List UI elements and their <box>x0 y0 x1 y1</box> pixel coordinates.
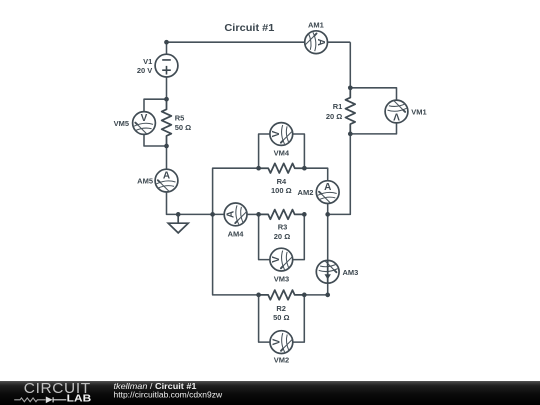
wire AM3 bottom lead to R2 row <box>327 283 329 295</box>
svg-text:LAB: LAB <box>67 392 92 404</box>
footer bar <box>0 381 540 405</box>
wire AM5 bottom down and right to AM4 <box>167 192 225 215</box>
svg-text:A: A <box>226 211 237 218</box>
wire VM3 parallel loop <box>259 214 305 259</box>
svg-text:AM2: AM2 <box>298 188 314 197</box>
svg-text:V: V <box>271 338 282 345</box>
wire top rail left of AM1 <box>167 41 305 43</box>
wire R5 bottom to AM5 top <box>166 146 168 169</box>
voltage source V1 <box>155 54 178 77</box>
junction node R1 top <box>348 85 353 90</box>
wire VM1 parallel loop <box>350 88 396 134</box>
junction node AM3 bottom <box>325 293 330 298</box>
wire AM4 right to R3 left node <box>247 213 259 215</box>
voltmeter VM4 <box>270 123 293 146</box>
svg-text:VM5: VM5 <box>114 119 129 128</box>
ammeter AM3 <box>316 260 339 283</box>
wire VM4 parallel loop <box>259 134 305 168</box>
svg-text:20 Ω: 20 Ω <box>326 112 342 121</box>
svg-text:R2: R2 <box>276 304 286 313</box>
wire VM5 parallel loop <box>144 99 167 146</box>
wire right rail R1 bottom down to AM2 bottom row <box>328 134 351 215</box>
svg-text:V: V <box>141 113 148 124</box>
ammeter AM5 <box>155 169 178 192</box>
voltmeter VM1 <box>385 100 408 123</box>
svg-text:AM4: AM4 <box>228 229 245 238</box>
svg-text:VM4: VM4 <box>274 148 290 157</box>
wire top rail right of AM1 <box>328 41 351 43</box>
junction node ground <box>176 212 181 217</box>
svg-text:A: A <box>315 39 326 46</box>
voltmeter VM5 <box>133 112 156 135</box>
svg-text:VM2: VM2 <box>274 355 289 364</box>
svg-text:A: A <box>324 182 331 193</box>
ground <box>168 214 188 233</box>
svg-text:50 Ω: 50 Ω <box>273 313 289 322</box>
junction node R2 right <box>302 293 307 298</box>
resistor R1 <box>346 88 356 134</box>
svg-text:http://circuitlab.com/cdxn9zw: http://circuitlab.com/cdxn9zw <box>114 390 224 400</box>
svg-text:20 V: 20 V <box>137 66 152 75</box>
svg-text:R1: R1 <box>333 102 343 111</box>
wire left mid rail with corner to R4 left node <box>213 168 259 295</box>
voltmeter VM3 <box>270 248 293 271</box>
CircuitLab logo circuit glyph: wire, resistor, diode <box>14 398 45 402</box>
svg-text:V1: V1 <box>143 57 152 66</box>
resistor R4 <box>259 163 305 173</box>
svg-text:V: V <box>393 111 400 122</box>
svg-text:Circuit #1: Circuit #1 <box>224 23 274 34</box>
resistor R2 <box>259 290 305 300</box>
svg-text:100 Ω: 100 Ω <box>271 186 292 195</box>
ammeter AM2 <box>316 181 339 204</box>
svg-text:AM3: AM3 <box>343 268 359 277</box>
wire V1 bottom lead <box>166 77 168 99</box>
resistor R5 <box>162 99 172 146</box>
ammeter AM4 <box>224 203 247 226</box>
junction node R2 left <box>256 293 261 298</box>
wire right rail down to R1 top <box>349 42 351 88</box>
junction node R5 top <box>164 97 169 102</box>
junction node R1 bottom <box>348 132 353 137</box>
svg-text:AM5: AM5 <box>137 177 153 186</box>
junction node V1 top <box>164 40 169 45</box>
voltmeter VM2 <box>270 331 293 354</box>
ammeter AM3 current arrow <box>327 260 329 283</box>
svg-text:R3: R3 <box>278 222 288 231</box>
junction node left rail crossing <box>210 212 215 217</box>
ammeter AM1 <box>305 31 328 54</box>
svg-text:20 Ω: 20 Ω <box>274 232 290 241</box>
resistor R3 <box>259 210 305 220</box>
junction node AM2 bottom <box>325 212 330 217</box>
junction node R3 left <box>256 212 261 217</box>
wire AM2 bottom lead <box>327 204 329 215</box>
junction node R4 left <box>256 166 261 171</box>
wire VM2 parallel loop <box>259 295 305 342</box>
junction node R3 right <box>302 212 307 217</box>
wire AM2 bottom junction down to AM3 <box>327 214 329 260</box>
svg-text:VM3: VM3 <box>274 275 289 284</box>
junction node R4 right <box>302 166 307 171</box>
wire V1 top lead <box>166 42 168 54</box>
svg-text:A: A <box>163 171 170 182</box>
svg-text:VM1: VM1 <box>411 108 426 117</box>
wire R2 right node to AM3 junction <box>304 294 327 296</box>
svg-text:50 Ω: 50 Ω <box>175 123 191 132</box>
svg-text:R5: R5 <box>175 114 185 123</box>
svg-text:R4: R4 <box>277 177 287 186</box>
svg-text:V: V <box>271 256 282 263</box>
svg-text:V: V <box>271 130 282 137</box>
svg-text:AM1: AM1 <box>308 21 324 30</box>
junction node R5 bottom <box>164 144 169 149</box>
wire R4 right node to AM2 top <box>304 168 327 181</box>
